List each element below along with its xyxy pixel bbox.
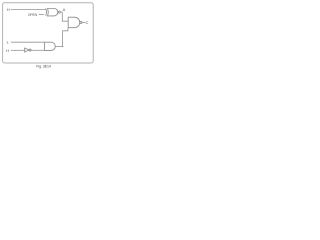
node B junction dot	[62, 46, 64, 48]
figure border box	[3, 3, 94, 63]
wire OPEN to gate U1	[39, 13, 44, 15]
svg-text:OPEN: OPEN	[28, 13, 38, 17]
svg-text:H: H	[7, 7, 10, 12]
svg-text:L: L	[7, 40, 10, 45]
svg-text:A: A	[63, 7, 66, 12]
wire U1 output to node A then down to U3 top input	[60, 12, 68, 21]
wire L to U2 top input	[11, 41, 45, 43]
gate U1 (NOR, extra input arc)	[45, 8, 48, 15]
svg-text:H: H	[6, 48, 9, 53]
bubble U1 output	[58, 11, 60, 13]
inverter triangle	[25, 48, 29, 52]
inverter bubble	[29, 49, 31, 51]
gate U3 (NAND)	[68, 17, 80, 28]
gate U2 (AND)	[45, 42, 56, 50]
wire node B up to U3 bottom input	[63, 28, 68, 47]
wire U2 output to node B	[55, 45, 62, 47]
wire inverter to U2 bottom input	[31, 49, 44, 51]
bubble U3 output	[80, 21, 82, 23]
svg-text:Fig. 3E14: Fig. 3E14	[36, 65, 51, 69]
wire U3 to output C	[82, 21, 85, 23]
wire H to inverter	[11, 49, 25, 51]
svg-text:C: C	[86, 20, 89, 25]
wire H to gate U1	[11, 8, 46, 10]
